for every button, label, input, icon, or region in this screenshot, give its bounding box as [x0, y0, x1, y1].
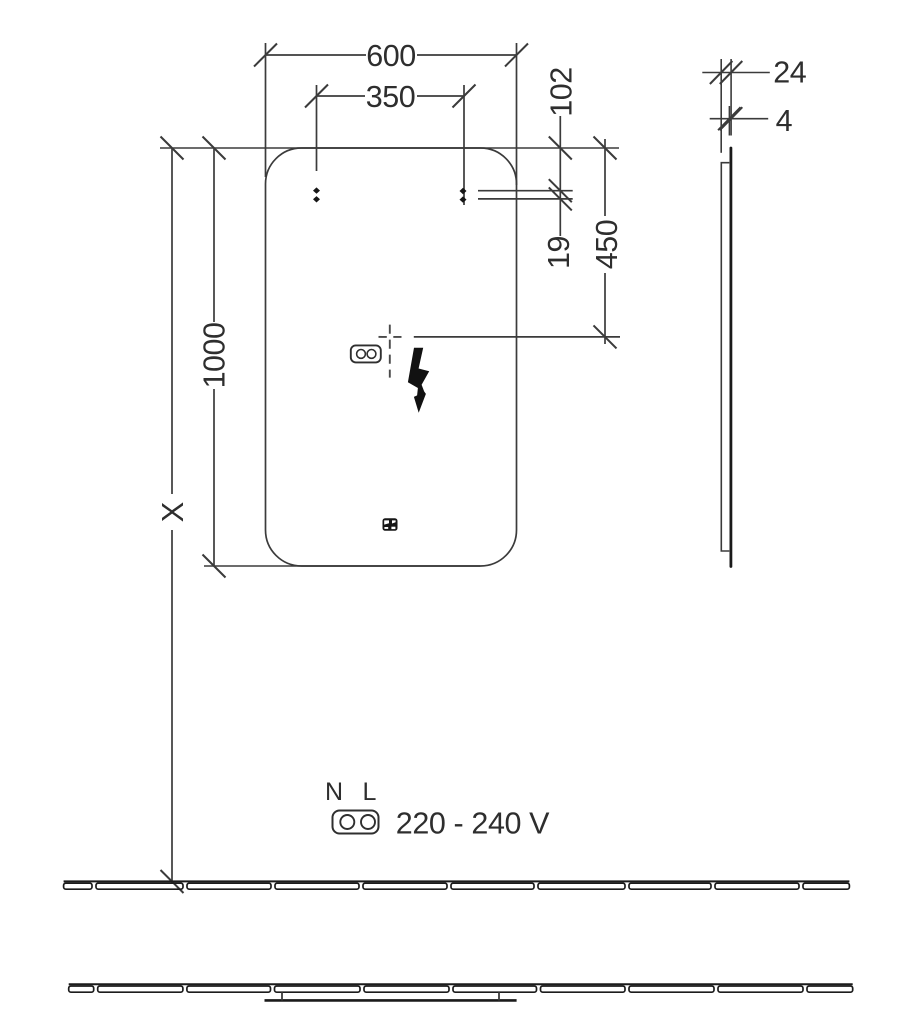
top edge extension line — [160, 147, 619, 149]
dimension 450 — [594, 137, 617, 349]
dimension 600 — [254, 43, 528, 185]
floor tile line upper: continuous top line — [64, 880, 850, 882]
side view glass (thick line) — [730, 148, 733, 567]
dimension 102 and 19 — [549, 116, 572, 236]
floor tile line lower: continuous top line — [69, 983, 853, 985]
svg-text:L: L — [363, 778, 377, 806]
connection point extension line — [414, 336, 620, 338]
side view backplate — [721, 163, 729, 551]
centre mark dashed cross — [379, 325, 402, 378]
svg-text:4: 4 — [776, 104, 793, 138]
svg-text:24: 24 — [773, 56, 806, 90]
svg-text:220 - 240 V: 220 - 240 V — [396, 807, 550, 841]
svg-text:19: 19 — [542, 236, 576, 269]
dimension 1000 — [203, 137, 226, 578]
bracket connector left — [281, 992, 283, 1000]
fixing point right (two diamonds) — [460, 188, 467, 203]
dimension X — [161, 137, 184, 894]
floor tile line upper: segments — [64, 883, 850, 889]
lightning bolt — [408, 348, 429, 413]
mirror top view line — [265, 999, 517, 1002]
fixing slot lines — [478, 191, 573, 199]
svg-text:N: N — [325, 778, 343, 806]
bottom edge extension line — [204, 565, 480, 567]
svg-text:X: X — [155, 501, 190, 522]
socket symbol on mirror — [351, 345, 381, 362]
bracket connector right — [498, 992, 500, 1000]
floor tile line lower: segments — [69, 986, 853, 992]
socket symbol bottom — [333, 811, 379, 834]
svg-text:600: 600 — [366, 39, 415, 73]
svg-text:1000: 1000 — [198, 323, 232, 389]
dimension 4 (side view) — [710, 106, 769, 136]
mirror front view outline — [266, 148, 517, 566]
dimension 350 — [305, 85, 476, 206]
fixing point left (two diamonds) — [313, 187, 320, 202]
svg-text:450: 450 — [590, 220, 624, 269]
svg-text:350: 350 — [366, 80, 415, 114]
sensor symbol on mirror bottom — [383, 518, 398, 531]
svg-text:102: 102 — [545, 67, 579, 116]
dimension 24 (side view) — [702, 59, 770, 153]
